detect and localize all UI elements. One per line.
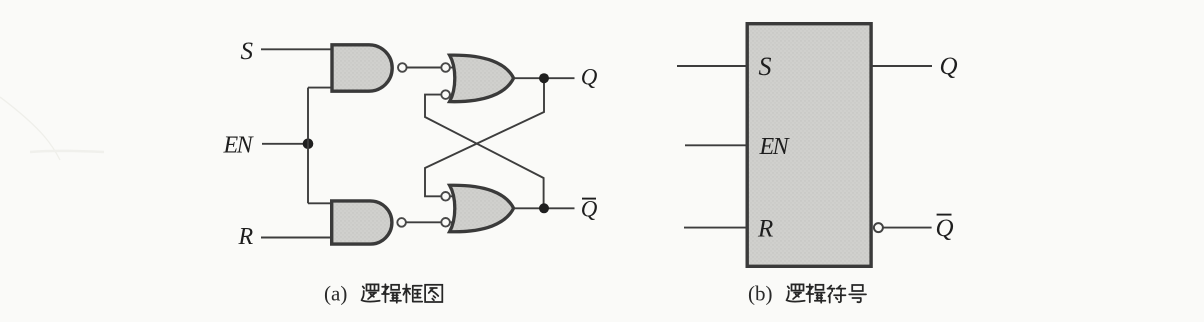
or gate G4 body	[450, 185, 514, 232]
svg-text:S: S	[241, 38, 254, 65]
wire S input	[677, 65, 747, 67]
U1 Qbar output bubble	[874, 223, 883, 232]
or gate G4 input stub lower	[448, 221, 459, 223]
or gate G4 upper input bubble	[441, 192, 450, 201]
wire EN to junction	[262, 143, 308, 145]
or gate G3 lower input bubble	[441, 90, 450, 99]
svg-text:Q: Q	[940, 53, 958, 80]
node EN junction dot	[303, 139, 314, 150]
svg-text:R: R	[238, 224, 254, 250]
caption (a) hanzi 逻辑框图	[362, 284, 443, 303]
svg-text:Q: Q	[581, 197, 598, 222]
svg-text:R: R	[757, 216, 773, 243]
or gate G4 lower input bubble	[441, 218, 450, 227]
nand gate G2 output bubble	[397, 218, 406, 227]
wire G1 bubble to G3 upper bubble	[407, 67, 442, 69]
wire G2 bubble to G4 lower bubble	[406, 221, 442, 223]
or gate G3 input stub upper	[448, 67, 459, 69]
label Qbar overbar	[937, 214, 952, 216]
svg-text:Q: Q	[936, 215, 954, 242]
svg-text:S: S	[759, 52, 772, 81]
or gate G4 input stub upper	[448, 195, 459, 197]
nand gate G2 body	[332, 201, 392, 244]
caption (b) hanzi 逻辑符号	[787, 284, 866, 303]
latch body U1 rectangle	[747, 24, 871, 267]
svg-text:EN: EN	[759, 134, 791, 160]
wire EN branch to NAND2 upper input	[308, 202, 332, 204]
wire EN branch to NAND1 lower input	[308, 87, 331, 89]
wire EN vertical branch	[307, 88, 309, 204]
svg-text:(a): (a)	[324, 282, 347, 306]
or gate G3 upper input bubble	[441, 63, 450, 72]
wire R to NAND2 lower input	[261, 237, 332, 239]
wire cross-couple Q-node to G4 upper input	[425, 78, 544, 196]
wire S to NAND1 top input	[261, 48, 331, 50]
nand gate G1 body	[332, 45, 392, 91]
wire G3 output to Q	[514, 77, 575, 79]
wire R input	[684, 227, 747, 229]
nand gate G1 output bubble	[398, 63, 407, 72]
wire cross-couple G3 lower input to Qbar-node	[425, 95, 544, 209]
or gate G3 body	[450, 55, 514, 102]
wire Qbar output	[883, 227, 932, 229]
svg-text:(b): (b)	[748, 282, 773, 306]
svg-text:EN: EN	[223, 133, 255, 159]
label Qbar overbar	[582, 198, 596, 200]
wire Q output	[872, 65, 932, 67]
node Q junction dot	[539, 73, 549, 83]
node Qbar junction dot	[539, 203, 549, 213]
or gate G3 input stub lower	[448, 94, 459, 96]
svg-text:Q: Q	[581, 64, 598, 89]
faint scan crease top-left	[0, 97, 60, 160]
faint scan smudge	[30, 151, 104, 152]
wire EN input	[685, 144, 747, 146]
wire G4 output to Qbar	[514, 207, 575, 209]
